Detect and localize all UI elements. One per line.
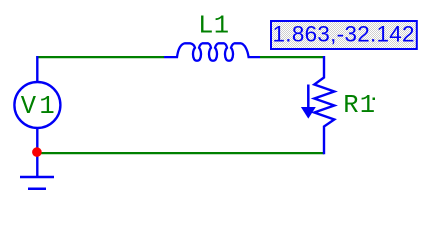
wire top-left (green, node between V1 and L1): [37, 56, 164, 58]
svg-text:V1: V1: [21, 92, 58, 121]
stray green dot after R1: [373, 98, 376, 101]
wire top-right (green, node between L1 and R1): [260, 56, 324, 58]
resistor R1 (zigzag): [314, 56, 334, 154]
wire V1 bottom lead to ground (blue): [36, 128, 38, 177]
coordinate readout box: [271, 21, 417, 49]
node junction dot (red): [32, 147, 42, 157]
wire V1 top lead (blue): [36, 56, 38, 82]
ground symbol: [20, 177, 54, 189]
svg-text:L1: L1: [198, 11, 229, 40]
voltage source V1 (circle): [14, 82, 60, 128]
svg-text:R1: R1: [343, 91, 376, 120]
svg-text:1.863,-32.142: 1.863,-32.142: [273, 21, 415, 46]
wire bottom (green, ground net): [40, 152, 324, 154]
current direction arrow of R1: [307, 85, 310, 108]
inductor L1 (coil): [164, 43, 260, 60]
